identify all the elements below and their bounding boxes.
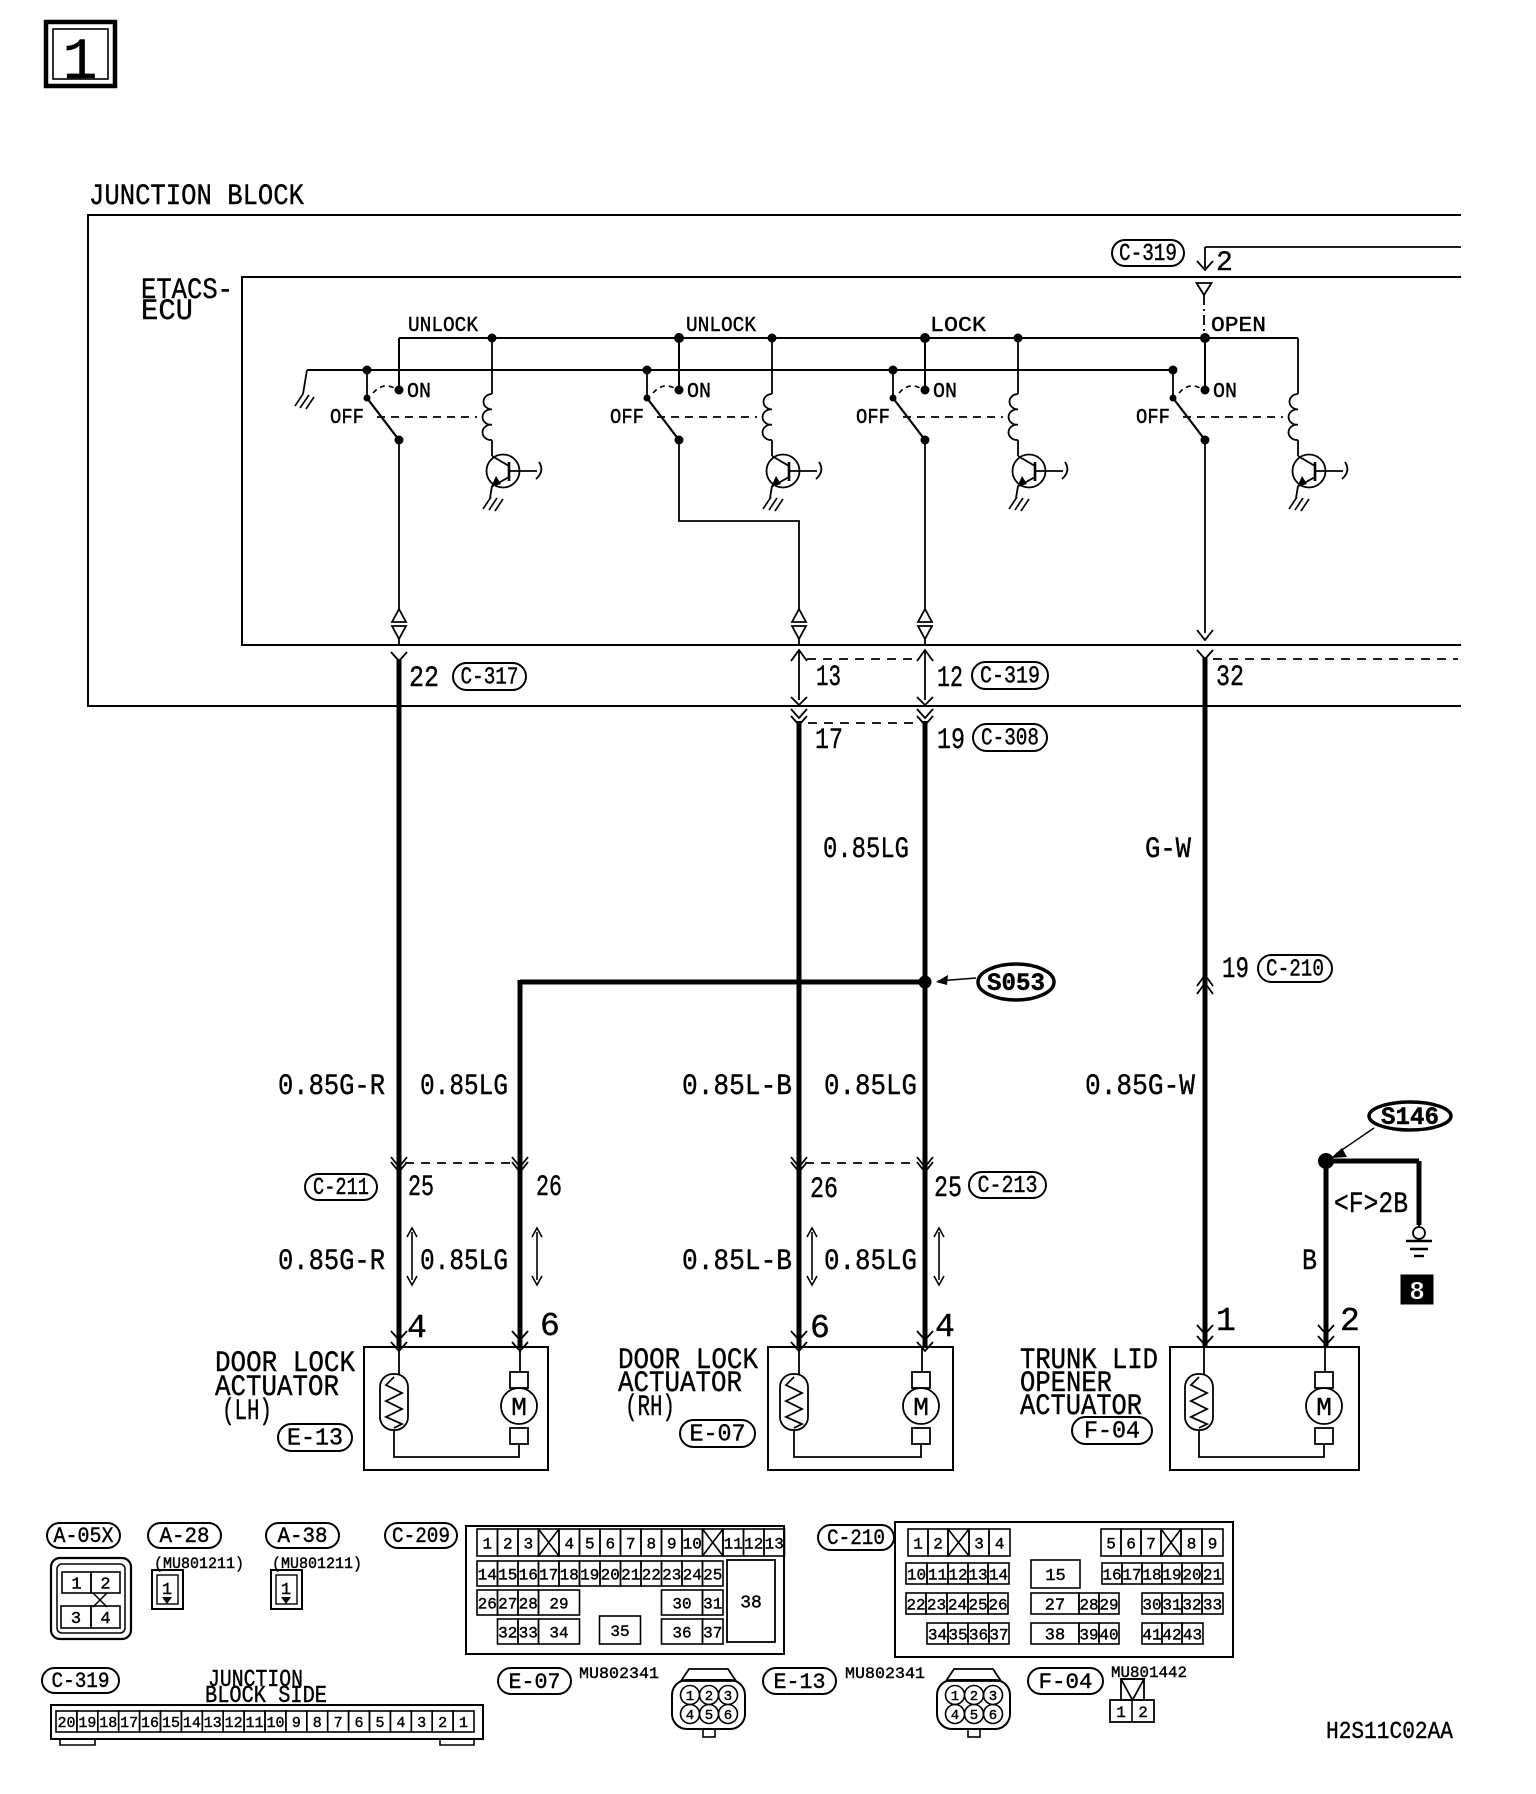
connector A-28 pinout (152, 1570, 183, 1609)
relay 3 transistor (1013, 455, 1068, 488)
svg-text:0.85LG: 0.85LG (420, 1070, 508, 1104)
ground at left end of lower rail (295, 370, 314, 409)
trunk lid opener actuator connector ref F-04 (1072, 1417, 1152, 1446)
svg-text:28: 28 (1079, 1596, 1098, 1614)
svg-text:15: 15 (1045, 1567, 1065, 1586)
svg-text:30: 30 (1142, 1596, 1161, 1614)
svg-text:1: 1 (63, 31, 98, 96)
svg-text:1: 1 (71, 1576, 81, 1595)
door lock actuator RH solenoid coil (780, 1347, 808, 1430)
relay 2 linkage dashed (657, 416, 757, 418)
door lock actuator RH name label (618, 1344, 758, 1425)
page reference 8 black box (1401, 1275, 1433, 1307)
connector label C-210 (818, 1525, 894, 1551)
svg-text:19: 19 (937, 724, 965, 758)
junction block box (88, 215, 1461, 706)
connector A-05X pinout (51, 1558, 131, 1639)
relay 2 transistor (767, 455, 822, 488)
svg-text:25: 25 (408, 1171, 434, 1205)
svg-text:22: 22 (409, 662, 439, 696)
svg-text:MU802341: MU802341 (845, 1665, 925, 1683)
connector C-210 mid label (1258, 955, 1332, 984)
svg-text:2: 2 (1138, 1704, 1148, 1722)
svg-text:23: 23 (927, 1596, 946, 1614)
svg-text:20: 20 (57, 1715, 75, 1732)
svg-text:MU802341: MU802341 (579, 1665, 659, 1683)
svg-text:27: 27 (498, 1595, 517, 1613)
svg-text:3: 3 (71, 1610, 81, 1629)
relay 2 switch (643, 333, 685, 445)
wire W2 chevrons at C-213 (791, 1157, 807, 1172)
wire W4 arrowhead at ETACS exit (1197, 650, 1213, 659)
svg-text:OFF: OFF (856, 407, 890, 430)
svg-text:17: 17 (815, 724, 843, 758)
door lock actuator RH box (768, 1347, 953, 1470)
svg-text:4: 4 (995, 1535, 1005, 1553)
svg-text:20: 20 (1182, 1566, 1201, 1584)
relay 4 linkage dashed (1183, 416, 1283, 418)
trunk lid opener actuator name label (1020, 1344, 1158, 1424)
svg-text:5: 5 (1106, 1535, 1116, 1553)
svg-text:23: 23 (662, 1566, 681, 1584)
trunk lid opener actuator internal wire (1199, 1430, 1324, 1457)
entry chevrons trunk pin2 (1318, 1325, 1334, 1345)
connector C-319 mid label (972, 662, 1048, 691)
svg-text:UNLOCK: UNLOCK (686, 315, 756, 338)
S053 arrow (936, 975, 976, 985)
relay 4 transistor ground (1289, 486, 1309, 511)
svg-text:1: 1 (482, 1535, 492, 1553)
svg-text:34: 34 (549, 1624, 568, 1642)
wire W4 chevrons at C-210 (1197, 975, 1213, 994)
svg-text:9: 9 (292, 1715, 301, 1732)
svg-text:F-04: F-04 (1039, 1670, 1093, 1695)
svg-text:3: 3 (417, 1715, 426, 1732)
svg-text:33: 33 (1203, 1596, 1222, 1614)
connector C-211 label (305, 1174, 377, 1202)
svg-text:29: 29 (1099, 1596, 1118, 1614)
svg-text:42: 42 (1162, 1626, 1181, 1644)
door lock actuator LH solenoid coil (380, 1347, 408, 1430)
svg-text:2: 2 (970, 1689, 978, 1705)
svg-text:OFF: OFF (1136, 407, 1170, 430)
svg-text:14: 14 (183, 1715, 201, 1732)
svg-text:32: 32 (1216, 661, 1244, 695)
svg-text:7: 7 (626, 1535, 636, 1553)
door lock actuator LH internal wire (394, 1430, 519, 1457)
svg-text:4: 4 (100, 1610, 110, 1629)
relay 1 linkage dashed (377, 416, 477, 418)
wire relay3 output upper segment (924, 440, 926, 609)
svg-text:11: 11 (928, 1566, 947, 1584)
svg-text:0.85LG: 0.85LG (824, 1070, 917, 1104)
svg-text:4: 4 (951, 1708, 959, 1724)
ETACS-ECU label (141, 274, 233, 329)
svg-text:M: M (1316, 1393, 1332, 1423)
svg-text:25: 25 (934, 1172, 962, 1206)
relay 4 switch (1169, 333, 1211, 445)
connector A-38 pinout (271, 1570, 302, 1609)
svg-text:ON: ON (1213, 381, 1237, 404)
svg-text:B: B (1302, 1245, 1317, 1279)
svg-text:19: 19 (1162, 1566, 1181, 1584)
svg-text:10: 10 (907, 1566, 926, 1584)
svg-text:3: 3 (724, 1689, 732, 1705)
svg-text:14: 14 (478, 1566, 497, 1584)
svg-text:10: 10 (266, 1715, 284, 1732)
svg-text:8: 8 (1187, 1535, 1197, 1553)
svg-text:17: 17 (120, 1715, 138, 1732)
relay 3 coil (1009, 334, 1023, 457)
svg-text:2: 2 (100, 1576, 110, 1595)
connector C-319 top label (1112, 240, 1184, 268)
relay 3 switch (889, 333, 931, 445)
svg-text:24: 24 (683, 1566, 702, 1584)
svg-text:13: 13 (816, 661, 841, 695)
svg-text:12: 12 (225, 1715, 243, 1732)
svg-text:13: 13 (968, 1566, 987, 1584)
svg-text:36: 36 (672, 1624, 691, 1642)
svg-text:C-210: C-210 (827, 1526, 885, 1551)
updown arrow S053 branch (532, 1228, 542, 1285)
svg-text:6: 6 (724, 1708, 732, 1724)
connector label F-04 bottom (1028, 1668, 1103, 1695)
svg-text:30: 30 (672, 1595, 691, 1613)
svg-text:34: 34 (928, 1626, 947, 1644)
svg-text:F-04: F-04 (1084, 1419, 1140, 1446)
connector C-213 label (969, 1172, 1046, 1200)
svg-text:C-308: C-308 (981, 726, 1039, 753)
dashed link 13-12 (807, 658, 917, 660)
svg-text:ON: ON (407, 381, 431, 404)
connector C-319 strip pinout (51, 1705, 483, 1745)
svg-text:35: 35 (948, 1626, 967, 1644)
svg-text:19: 19 (1222, 953, 1249, 987)
svg-text:21: 21 (621, 1566, 640, 1584)
svg-text:43: 43 (1183, 1626, 1202, 1644)
splice S053 junction dot (919, 976, 932, 989)
svg-text:C-317: C-317 (461, 665, 519, 692)
svg-text:16: 16 (1102, 1566, 1121, 1584)
svg-text:29: 29 (549, 1595, 568, 1613)
svg-text:7: 7 (334, 1715, 343, 1732)
svg-text:4: 4 (396, 1715, 405, 1732)
dashed link right of 32 (1213, 658, 1458, 660)
connector label E-13 bottom (763, 1668, 836, 1695)
relay 3 transistor ground (1009, 486, 1029, 511)
svg-text:1: 1 (686, 1689, 694, 1705)
ground symbol F (1406, 1225, 1432, 1256)
svg-text:0.85LG: 0.85LG (823, 833, 909, 867)
svg-text:1: 1 (1216, 1303, 1236, 1340)
svg-text:17: 17 (539, 1566, 558, 1584)
dashed link 17-19 (808, 722, 917, 724)
svg-text:E-07: E-07 (690, 1422, 746, 1449)
svg-text:C-319: C-319 (52, 1669, 110, 1694)
wire W3 chevrons into C-308 (917, 709, 933, 725)
relay 2 coil (763, 334, 777, 457)
svg-text:38: 38 (740, 1593, 762, 1613)
relay 4 transistor (1293, 455, 1348, 488)
svg-text:33: 33 (519, 1624, 538, 1642)
svg-text:E-13: E-13 (774, 1670, 826, 1695)
svg-text:5: 5 (970, 1708, 978, 1724)
svg-text:ON: ON (933, 381, 957, 404)
svg-text:C-210: C-210 (1266, 957, 1324, 984)
svg-text:(LH): (LH) (222, 1395, 272, 1429)
svg-text:11: 11 (724, 1535, 743, 1553)
svg-text:8: 8 (1409, 1277, 1425, 1307)
svg-text:3: 3 (974, 1535, 984, 1553)
svg-text:M: M (913, 1393, 929, 1423)
door lock actuator RH motor M (903, 1347, 939, 1444)
svg-text:0.85L-B: 0.85L-B (682, 1070, 792, 1104)
connector label A-05X (47, 1523, 120, 1549)
junction block side label (205, 1667, 327, 1710)
svg-text:15: 15 (498, 1566, 517, 1584)
svg-text:18: 18 (99, 1715, 117, 1732)
door lock actuator RH internal wire (794, 1430, 921, 1457)
svg-text:4: 4 (935, 1309, 955, 1346)
updown arrow W2 (807, 1228, 817, 1285)
door lock actuator LH motor M (501, 1347, 537, 1444)
svg-text:19: 19 (580, 1566, 599, 1584)
wire W3 chevrons at C-213 (917, 1157, 933, 1172)
wire W3 thick run through S053 to RH actuator (923, 721, 928, 1348)
svg-text:37: 37 (703, 1624, 722, 1642)
svg-text:<F>2B: <F>2B (1334, 1188, 1408, 1222)
arrow into ETACS open triangle (1197, 283, 1212, 295)
svg-text:16: 16 (141, 1715, 159, 1732)
wire S146 branch to trunk pin2 (1324, 1161, 1329, 1348)
connector F-04 pinout (1110, 1679, 1154, 1722)
svg-text:C-319: C-319 (1119, 241, 1177, 268)
trunk lid opener actuator box (1170, 1347, 1359, 1470)
svg-text:A-05X: A-05X (54, 1524, 114, 1549)
wire W2 connector symbol triangles (792, 609, 806, 646)
splice S146 junction dot (1318, 1153, 1334, 1169)
svg-text:6: 6 (810, 1310, 830, 1347)
svg-text:41: 41 (1142, 1626, 1161, 1644)
svg-text:A-28: A-28 (160, 1524, 210, 1549)
svg-text:22: 22 (642, 1566, 661, 1584)
svg-text:UNLOCK: UNLOCK (408, 315, 478, 338)
svg-text:1: 1 (913, 1535, 923, 1553)
svg-text:2: 2 (1340, 1303, 1360, 1340)
svg-text:26: 26 (536, 1171, 562, 1205)
svg-text:40: 40 (1099, 1626, 1118, 1644)
svg-text:36: 36 (969, 1626, 988, 1644)
svg-text:10: 10 (683, 1535, 702, 1553)
svg-text:20: 20 (601, 1566, 620, 1584)
wire relay1 output upper segment (398, 440, 400, 609)
svg-text:1: 1 (459, 1715, 468, 1732)
connector C-308 label (973, 724, 1047, 753)
svg-text:8: 8 (646, 1535, 656, 1553)
wire S053 horizontal branch (520, 980, 925, 985)
svg-text:25: 25 (968, 1596, 987, 1614)
dashed link 25-26 C-211 (405, 1162, 514, 1164)
wire S053branch chevrons at C-211 (512, 1157, 528, 1172)
wire S146 to ground horizontal (1326, 1159, 1419, 1164)
svg-text:16: 16 (519, 1566, 538, 1584)
svg-text:2: 2 (503, 1535, 513, 1553)
svg-text:S146: S146 (1381, 1103, 1439, 1132)
connector label C-209 (385, 1523, 457, 1549)
svg-text:26: 26 (810, 1173, 838, 1207)
relay 1 transistor (487, 455, 542, 488)
svg-text:21: 21 (1203, 1566, 1222, 1584)
svg-text:35: 35 (610, 1623, 629, 1641)
svg-text:8: 8 (313, 1715, 322, 1732)
svg-text:6: 6 (989, 1708, 997, 1724)
svg-text:11: 11 (246, 1715, 264, 1732)
ETACS-ECU box (242, 277, 1461, 645)
svg-text:6: 6 (605, 1535, 615, 1553)
entry chevrons RH pin4 (917, 1331, 933, 1351)
wire S146 ground drop (1417, 1161, 1422, 1225)
wire W1 connector symbol triangles (392, 609, 406, 646)
svg-text:26: 26 (478, 1595, 497, 1613)
svg-text:28: 28 (519, 1595, 538, 1613)
svg-text:9: 9 (667, 1535, 677, 1553)
svg-text:27: 27 (1045, 1597, 1065, 1616)
svg-text:12: 12 (744, 1535, 763, 1553)
svg-text:32: 32 (1182, 1596, 1201, 1614)
entry chevrons LH pin6 (512, 1331, 528, 1351)
wire from C-319 pin 2 top feed (1197, 247, 1461, 270)
connector label C-319 bottom (42, 1668, 119, 1694)
svg-text:7: 7 (1146, 1535, 1156, 1553)
svg-text:4: 4 (407, 1310, 427, 1347)
wire W4 thick run to trunk actuator (1203, 657, 1208, 1348)
svg-text:6: 6 (355, 1715, 364, 1732)
svg-text:OFF: OFF (330, 407, 364, 430)
trunk lid opener actuator solenoid coil (1185, 1347, 1213, 1430)
svg-text:S053: S053 (987, 969, 1045, 998)
svg-text:39: 39 (1079, 1626, 1098, 1644)
svg-text:H2S11C02AA: H2S11C02AA (1326, 1719, 1454, 1746)
svg-text:A-38: A-38 (278, 1524, 328, 1549)
connector label A-28 (148, 1523, 221, 1549)
S053 label (978, 964, 1054, 1000)
svg-text:C-209: C-209 (392, 1524, 450, 1549)
relay 1 switch (363, 338, 404, 445)
wire relay2 output jog segment (679, 440, 799, 609)
wire W2 up arrow between rails (791, 650, 807, 705)
svg-text:2: 2 (438, 1715, 447, 1732)
wire W3 up arrow between rails (917, 650, 933, 705)
svg-text:22: 22 (906, 1596, 925, 1614)
wire W2 thick run to RH actuator (797, 721, 802, 1348)
svg-text:1: 1 (1116, 1704, 1126, 1722)
relay 1 coil (483, 334, 497, 457)
svg-text:6: 6 (1126, 1535, 1136, 1553)
svg-text:17: 17 (1122, 1566, 1141, 1584)
svg-text:9: 9 (1208, 1535, 1218, 1553)
svg-text:2: 2 (1216, 248, 1233, 279)
svg-text:0.85LG: 0.85LG (420, 1245, 508, 1279)
svg-text:LOCK: LOCK (930, 315, 986, 338)
svg-text:12: 12 (937, 662, 963, 696)
entry chevrons trunk pin1 (1197, 1325, 1213, 1345)
connector C-317 label (453, 663, 526, 692)
svg-text:18: 18 (560, 1566, 579, 1584)
svg-text:6: 6 (540, 1308, 560, 1345)
svg-text:24: 24 (948, 1596, 967, 1614)
svg-text:0.85G-R: 0.85G-R (278, 1070, 385, 1104)
svg-text:C-213: C-213 (978, 1173, 1038, 1200)
svg-text:2: 2 (705, 1689, 713, 1705)
svg-text:13: 13 (765, 1535, 784, 1553)
bus rail lower (307, 369, 1173, 371)
wire W2 chevrons into C-308 (791, 709, 807, 725)
svg-text:JUNCTION BLOCK: JUNCTION BLOCK (89, 180, 304, 214)
svg-text:E-13: E-13 (287, 1426, 343, 1453)
svg-text:C-319: C-319 (980, 664, 1040, 691)
relay 2 transistor ground (763, 486, 783, 511)
svg-text:13: 13 (204, 1715, 222, 1732)
wire triangle to bus (1203, 295, 1205, 338)
svg-text:38: 38 (1045, 1627, 1065, 1646)
svg-text:12: 12 (948, 1566, 967, 1584)
svg-text:5: 5 (375, 1715, 384, 1732)
page number box 1 (46, 22, 115, 96)
door lock actuator RH connector ref E-07 (680, 1420, 755, 1449)
svg-text:2: 2 (933, 1535, 943, 1553)
connector label E-07 bottom (498, 1668, 571, 1695)
svg-text:4: 4 (686, 1708, 694, 1724)
svg-text:19: 19 (78, 1715, 96, 1732)
svg-text:32: 32 (498, 1624, 517, 1642)
svg-text:4: 4 (564, 1535, 574, 1553)
bus rail upper (399, 337, 1298, 339)
svg-text:18: 18 (1142, 1566, 1161, 1584)
svg-text:1: 1 (951, 1689, 959, 1705)
svg-text:0.85G-R: 0.85G-R (278, 1245, 385, 1279)
svg-text:E-07: E-07 (509, 1670, 561, 1695)
svg-text:ECU: ECU (141, 295, 193, 329)
svg-text:3: 3 (989, 1689, 997, 1705)
wire W3 connector symbol triangles (918, 609, 932, 646)
trunk lid opener actuator motor M (1306, 1347, 1342, 1444)
svg-text:5: 5 (705, 1708, 713, 1724)
connector label A-38 (266, 1523, 339, 1549)
door lock actuator LH name label (215, 1347, 355, 1429)
svg-text:M: M (511, 1393, 527, 1423)
wire W1 arrowhead at ETACS exit (391, 652, 407, 661)
svg-text:25: 25 (703, 1566, 722, 1584)
entry chevrons RH pin6 (791, 1331, 807, 1351)
wire W1 thick run to LH actuator (397, 659, 402, 1348)
door lock actuator LH connector ref E-13 (278, 1424, 352, 1453)
svg-text:OFF: OFF (610, 407, 644, 430)
updown arrow W1 (407, 1228, 417, 1285)
wire relay4 output with arrow (1197, 440, 1213, 640)
svg-text:31: 31 (1162, 1596, 1181, 1614)
wire W1 chevrons at C-211 (391, 1157, 407, 1172)
connector C-209 pinout (466, 1526, 785, 1654)
entry chevrons LH pin4 (391, 1331, 407, 1351)
connector E-13 pinout round (937, 1669, 1010, 1737)
svg-text:0.85G-W: 0.85G-W (1085, 1070, 1195, 1104)
svg-text:0.85L-B: 0.85L-B (682, 1245, 792, 1279)
relay 4 coil (1289, 338, 1298, 456)
wire S053 branch down to LH actuator (518, 980, 523, 1348)
updown arrow W3 (934, 1228, 944, 1285)
svg-text:15: 15 (162, 1715, 180, 1732)
splice S146 label (1369, 1102, 1451, 1132)
